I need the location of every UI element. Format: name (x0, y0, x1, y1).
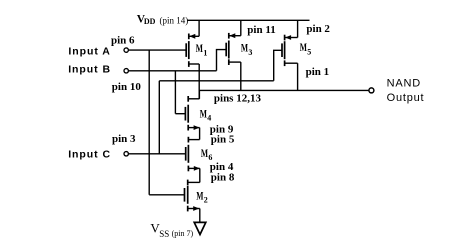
svg-text:M: M (241, 42, 248, 54)
svg-text:(pin 14): (pin 14) (160, 15, 189, 25)
svg-text:pin 1: pin 1 (306, 66, 330, 78)
svg-text:pin 8: pin 8 (211, 171, 235, 183)
svg-text:M: M (201, 148, 208, 160)
wire M5 drain vertical (297, 63, 299, 90)
wire input A to M1 gate (129, 49, 186, 51)
svg-text:Output: Output (387, 92, 425, 104)
wire M5 source drop (297, 20, 299, 37)
svg-text:5: 5 (307, 48, 311, 57)
wire input C to M6 gate (129, 153, 186, 155)
node VSS label (150, 221, 193, 239)
svg-text:M: M (300, 42, 307, 54)
node VDD label (137, 13, 188, 26)
wire input B line (129, 70, 217, 72)
node Input B terminal (124, 69, 128, 73)
svg-text:M: M (196, 43, 203, 55)
wire M3 gate stub (217, 50, 227, 71)
wire M4 source to M6 drain (199, 128, 201, 140)
transistor M4 (NMOS) (185, 96, 199, 131)
svg-text:M: M (200, 108, 207, 120)
svg-text:pin 10: pin 10 (112, 81, 142, 93)
svg-text:Input C: Input C (68, 148, 111, 160)
svg-text:pins 12,13: pins 12,13 (214, 92, 262, 104)
node Input C terminal (124, 152, 128, 156)
wire M5 gate stub (274, 50, 282, 81)
svg-text:pin 2: pin 2 (306, 23, 330, 35)
wire input C branch up (158, 81, 160, 154)
svg-text:2: 2 (204, 196, 208, 205)
wire M2 source drop (199, 209, 201, 223)
wire M3 source drop (240, 20, 242, 35)
svg-text:6: 6 (208, 153, 212, 162)
wire drain bus M1 to M4 (198, 64, 200, 99)
svg-text:pin 11: pin 11 (247, 24, 275, 36)
M5 label (300, 42, 312, 57)
node Input A terminal (124, 48, 128, 52)
wire input A branch down (148, 50, 150, 195)
M3 label (241, 42, 253, 57)
M1 label (196, 43, 208, 58)
svg-text:SS: SS (159, 229, 169, 239)
transistor M6 (NMOS) (186, 137, 200, 172)
svg-text:NAND: NAND (387, 78, 421, 90)
svg-text:(pin 7): (pin 7) (172, 229, 194, 238)
wire M1 source drop (198, 20, 200, 36)
wire input B branch down (174, 71, 176, 114)
transistor M1 (PMOS) (186, 34, 199, 67)
M2 label (196, 190, 208, 204)
transistor M2 (NMOS) (185, 180, 200, 212)
svg-text:pin 3: pin 3 (112, 133, 136, 145)
M4 label (200, 108, 212, 122)
svg-text:pin 5: pin 5 (211, 134, 235, 146)
wire input C cross wire (159, 80, 273, 82)
node NAND output terminal (369, 88, 374, 93)
wire M4 gate lead (175, 113, 185, 115)
svg-text:4: 4 (207, 114, 211, 123)
svg-text:M: M (196, 190, 203, 202)
wire VDD rail (188, 19, 310, 21)
svg-text:3: 3 (248, 48, 252, 57)
svg-text:pin 6: pin 6 (111, 34, 135, 46)
wire M4 drain up to output (198, 90, 200, 98)
wire M3 drain vertical (240, 62, 242, 90)
svg-text:DD: DD (144, 17, 156, 26)
transistor M3 (PMOS) (226, 33, 241, 65)
svg-text:Input A: Input A (68, 46, 110, 58)
transistor M5 (PMOS) (282, 35, 298, 66)
wire output line (199, 89, 368, 91)
svg-text:1: 1 (203, 48, 207, 57)
NAND Output label (387, 78, 425, 104)
wire M2 gate lead (149, 194, 184, 196)
wire M6 source to M2 drain (199, 168, 201, 182)
ground VSS symbol (194, 222, 206, 234)
svg-text:Input B: Input B (68, 64, 111, 76)
M6 label (201, 148, 213, 162)
